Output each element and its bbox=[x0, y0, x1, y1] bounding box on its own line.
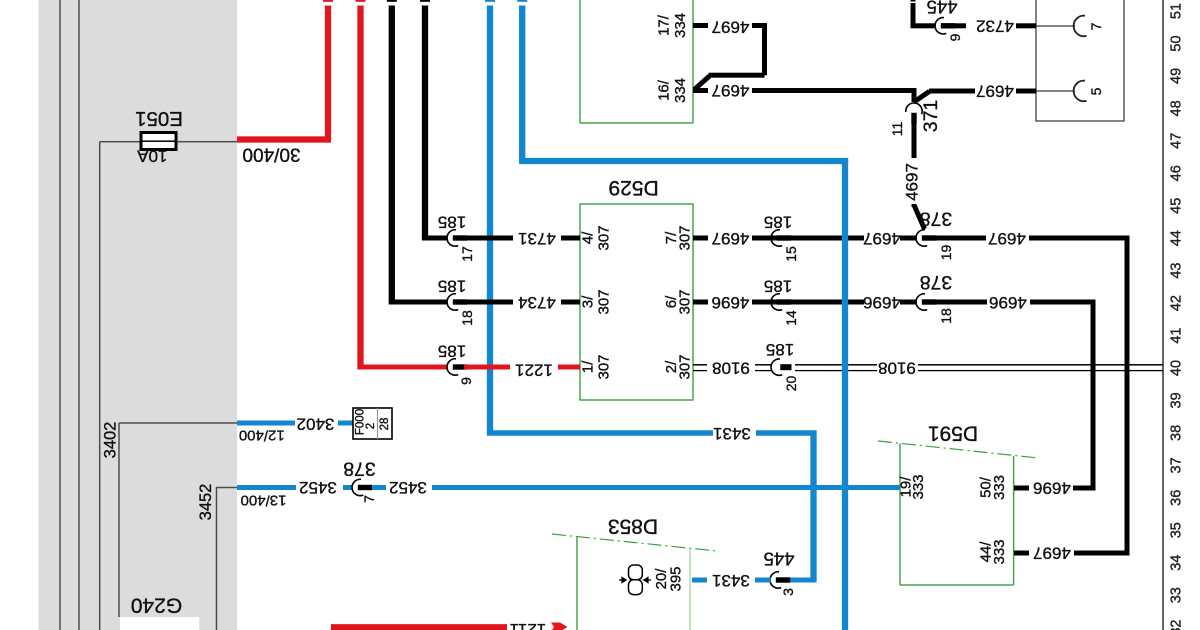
svg-text:11: 11 bbox=[889, 122, 905, 137]
svg-text:D591: D591 bbox=[928, 422, 978, 445]
svg-text:3402: 3402 bbox=[297, 415, 335, 434]
svg-text:51: 51 bbox=[1169, 3, 1185, 19]
svg-text:185: 185 bbox=[438, 213, 466, 232]
svg-text:4697: 4697 bbox=[863, 229, 901, 248]
svg-text:3: 3 bbox=[780, 588, 796, 596]
svg-text:36: 36 bbox=[1169, 490, 1185, 506]
svg-text:14: 14 bbox=[783, 310, 799, 326]
svg-text:3402: 3402 bbox=[102, 422, 120, 459]
svg-text:9: 9 bbox=[947, 33, 963, 41]
svg-text:3431: 3431 bbox=[712, 571, 750, 590]
svg-text:28: 28 bbox=[379, 418, 391, 431]
svg-text:4697: 4697 bbox=[903, 163, 922, 201]
svg-text:18: 18 bbox=[938, 308, 954, 324]
svg-text:4697: 4697 bbox=[1033, 544, 1071, 563]
svg-text:17: 17 bbox=[459, 246, 475, 262]
svg-text:1/: 1/ bbox=[580, 360, 597, 373]
svg-text:371: 371 bbox=[920, 100, 942, 133]
svg-text:33: 33 bbox=[1169, 587, 1185, 603]
svg-text:334: 334 bbox=[672, 78, 689, 103]
svg-text:19: 19 bbox=[938, 245, 954, 261]
svg-text:307: 307 bbox=[677, 289, 694, 314]
svg-text:20: 20 bbox=[783, 376, 799, 392]
svg-text:32: 32 bbox=[1169, 620, 1185, 630]
svg-text:4696: 4696 bbox=[1033, 479, 1071, 498]
svg-text:7: 7 bbox=[361, 495, 377, 503]
svg-text:4696: 4696 bbox=[863, 293, 901, 312]
svg-text:185: 185 bbox=[438, 277, 466, 296]
svg-text:333: 333 bbox=[910, 474, 927, 499]
svg-text:13/400: 13/400 bbox=[241, 492, 287, 509]
svg-text:378: 378 bbox=[920, 271, 953, 293]
svg-text:4734: 4734 bbox=[518, 293, 556, 312]
svg-text:185: 185 bbox=[764, 277, 792, 296]
svg-text:4697: 4697 bbox=[976, 82, 1014, 101]
svg-text:9108: 9108 bbox=[712, 359, 750, 378]
svg-text:3452: 3452 bbox=[389, 478, 427, 497]
svg-text:4696: 4696 bbox=[989, 293, 1027, 312]
svg-text:4697: 4697 bbox=[712, 81, 750, 100]
svg-text:18: 18 bbox=[459, 310, 475, 326]
svg-text:307: 307 bbox=[596, 354, 613, 379]
svg-text:5: 5 bbox=[1088, 87, 1104, 95]
svg-text:12/400: 12/400 bbox=[239, 427, 285, 444]
svg-text:3452: 3452 bbox=[299, 478, 337, 497]
svg-text:4696: 4696 bbox=[712, 293, 750, 312]
svg-text:34: 34 bbox=[1169, 555, 1185, 571]
svg-text:30/400: 30/400 bbox=[242, 144, 300, 165]
svg-text:48: 48 bbox=[1169, 100, 1185, 116]
svg-text:378: 378 bbox=[343, 458, 376, 480]
svg-text:3431: 3431 bbox=[713, 424, 751, 443]
svg-text:43: 43 bbox=[1169, 263, 1185, 279]
svg-text:40: 40 bbox=[1169, 360, 1185, 376]
svg-text:9108: 9108 bbox=[878, 359, 916, 378]
svg-text:44: 44 bbox=[1169, 230, 1185, 246]
svg-text:9: 9 bbox=[458, 377, 474, 385]
svg-text:307: 307 bbox=[596, 289, 613, 314]
svg-text:4/: 4/ bbox=[580, 231, 597, 244]
svg-text:185: 185 bbox=[764, 213, 792, 232]
svg-text:1211: 1211 bbox=[510, 620, 547, 630]
svg-text:G240: G240 bbox=[131, 594, 182, 617]
svg-text:395: 395 bbox=[668, 566, 685, 591]
svg-text:7: 7 bbox=[1088, 22, 1104, 30]
svg-text:4697: 4697 bbox=[712, 18, 750, 37]
svg-text:333: 333 bbox=[991, 475, 1008, 500]
svg-text:3/: 3/ bbox=[580, 295, 597, 308]
svg-text:38: 38 bbox=[1169, 425, 1185, 441]
svg-text:4732: 4732 bbox=[976, 17, 1014, 36]
svg-text:185: 185 bbox=[438, 342, 466, 361]
svg-text:307: 307 bbox=[677, 225, 694, 250]
svg-text:49: 49 bbox=[1169, 68, 1185, 84]
svg-text:4731: 4731 bbox=[518, 229, 556, 248]
svg-text:333: 333 bbox=[991, 539, 1008, 564]
svg-text:39: 39 bbox=[1169, 392, 1185, 408]
svg-text:307: 307 bbox=[596, 225, 613, 250]
svg-text:2: 2 bbox=[365, 423, 377, 429]
svg-text:16/: 16/ bbox=[656, 79, 673, 101]
svg-text:42: 42 bbox=[1169, 295, 1185, 311]
svg-text:45: 45 bbox=[1169, 198, 1185, 214]
svg-text:46: 46 bbox=[1169, 165, 1185, 181]
svg-text:4697: 4697 bbox=[712, 229, 750, 248]
svg-text:445: 445 bbox=[927, 0, 958, 18]
svg-text:334: 334 bbox=[672, 13, 689, 38]
svg-text:35: 35 bbox=[1169, 522, 1185, 538]
svg-text:3452: 3452 bbox=[197, 484, 215, 521]
svg-text:1221: 1221 bbox=[515, 361, 553, 380]
svg-text:17/: 17/ bbox=[656, 14, 673, 36]
svg-text:50: 50 bbox=[1169, 35, 1185, 51]
svg-text:37: 37 bbox=[1169, 457, 1185, 473]
svg-text:41: 41 bbox=[1169, 328, 1185, 344]
svg-text:185: 185 bbox=[766, 340, 794, 359]
svg-text:D853: D853 bbox=[608, 515, 658, 538]
svg-text:E051: E051 bbox=[135, 107, 183, 130]
svg-text:D529: D529 bbox=[608, 176, 658, 199]
svg-text:445: 445 bbox=[764, 549, 795, 570]
svg-text:4697: 4697 bbox=[988, 229, 1026, 248]
svg-text:47: 47 bbox=[1169, 133, 1185, 149]
svg-text:307: 307 bbox=[677, 354, 694, 379]
svg-text:15: 15 bbox=[783, 246, 799, 262]
svg-text:10A: 10A bbox=[137, 147, 168, 166]
svg-text:378: 378 bbox=[920, 208, 953, 230]
svg-text:F000: F000 bbox=[355, 409, 367, 435]
